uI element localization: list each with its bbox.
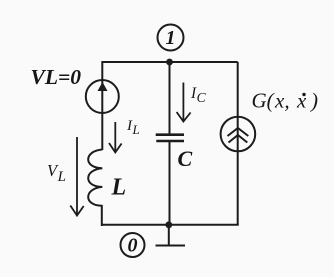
arrow I_C bbox=[177, 83, 191, 122]
svg-text:L: L bbox=[111, 175, 127, 201]
svg-text:x: x bbox=[296, 89, 307, 113]
wire left branch lower bbox=[101, 205, 103, 226]
wire middle branch lower bbox=[169, 142, 171, 225]
svg-text:): ) bbox=[310, 89, 318, 113]
svg-text:G(: G( bbox=[252, 89, 276, 113]
wire middle branch upper bbox=[169, 62, 171, 134]
arrow I_L bbox=[109, 122, 122, 152]
label G(x, xdot) bbox=[252, 89, 319, 113]
wire bottom horizontal bbox=[103, 224, 239, 226]
arrow V_L bbox=[70, 137, 83, 216]
junction node bottom bbox=[165, 221, 172, 228]
ground bbox=[156, 225, 186, 246]
wire top horizontal bbox=[103, 61, 238, 63]
dependent source G circle bbox=[221, 117, 256, 152]
node 1 circle bbox=[158, 25, 184, 51]
junction node top bbox=[166, 59, 173, 66]
svg-text:VL: VL bbox=[47, 161, 66, 185]
svg-text:IC: IC bbox=[190, 85, 207, 105]
current source circle (VL) bbox=[86, 80, 119, 113]
wire left branch upper bbox=[101, 61, 103, 150]
svg-text:x,: x, bbox=[274, 89, 290, 113]
svg-text:IL: IL bbox=[126, 118, 140, 137]
svg-text:C: C bbox=[178, 146, 193, 171]
node 0 circle bbox=[121, 233, 145, 257]
inductor L bbox=[88, 150, 102, 206]
svg-text:0: 0 bbox=[128, 235, 138, 257]
capacitor C plates bbox=[156, 135, 184, 141]
svg-text:1: 1 bbox=[166, 27, 176, 49]
svg-text:VL=0: VL=0 bbox=[31, 65, 82, 89]
wire right branch bbox=[237, 62, 239, 225]
